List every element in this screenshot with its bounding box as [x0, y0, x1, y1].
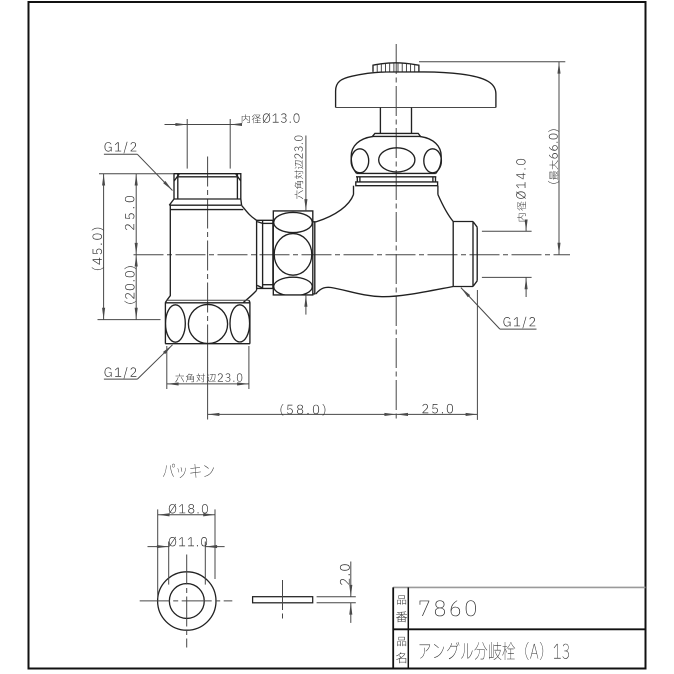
packing side view centerline	[282, 580, 284, 619]
dimension label hex across-flats 23.0 vertical	[294, 136, 303, 200]
dimension inner diameter 14.0 arrows	[525, 222, 527, 232]
dimension (20.0) line	[135, 255, 137, 320]
title block left border	[392, 587, 394, 668]
dimension (58.0) line	[208, 413, 397, 415]
title block label part number (hinban)	[397, 595, 406, 604]
dimension max height extension line at handle top	[419, 61, 565, 63]
dimension thickness 2.0 arrows	[350, 562, 352, 597]
dimension label (58.0)	[281, 404, 326, 416]
dimension diameter 18.0 line	[158, 514, 215, 516]
packing centerline horizontal	[140, 600, 233, 602]
centerline left fitting vertical axis	[207, 157, 209, 346]
dimension label hex across-flats 23.0 horizontal	[175, 373, 242, 382]
dimension extension line top at thread	[99, 173, 174, 175]
branch right flange to valve body	[313, 222, 315, 294]
label packing title	[163, 464, 214, 478]
left fitting body right edge upper S-curve to branch	[242, 205, 257, 220]
valve handle knurled cap	[373, 63, 419, 72]
dimension (45.0) line	[103, 174, 105, 320]
left fitting flare below thread	[169, 199, 174, 205]
title block row divider	[393, 628, 645, 630]
valve body neck	[353, 186, 355, 195]
dimension hex across-flats 23.0 leader upper	[305, 136, 307, 211]
dimension hex across-flats 23.0 leader lower	[305, 295, 307, 315]
label G1/2 bottom-left with leader	[105, 367, 137, 379]
dimension hex nut across-flats line	[167, 383, 249, 385]
left fitting body right edge lower S-curve from branch	[243, 290, 256, 302]
label G1/2 right with leader	[503, 317, 535, 329]
left fitting thread bottom edge	[174, 198, 241, 200]
dimension label diameter 18.0	[169, 504, 208, 514]
dimension label inner diameter 14.0	[516, 159, 526, 222]
packing front view inner circle	[169, 584, 204, 619]
left fitting top thread G1/2 outer profile	[174, 174, 241, 199]
dimension label (45.0)	[92, 228, 104, 270]
dimension label diameter 11.0	[169, 537, 207, 547]
dimension 25.0 bottom line	[396, 413, 477, 415]
title block part number value 7860	[420, 600, 476, 616]
dimension label 25.0 bottom	[422, 404, 453, 414]
dimension diameter 11.0 arrows	[148, 546, 169, 548]
valve handle mushroom profile	[336, 72, 496, 108]
dimension label 25.0	[125, 196, 135, 230]
label G1/2 top-left with leader	[105, 142, 137, 154]
dimension label thickness 2.0	[340, 564, 350, 585]
dimension inner diameter 13.0 extension lines	[186, 119, 188, 169]
left fitting thread minor-diameter lines	[177, 174, 179, 199]
packing centerline vertical	[186, 555, 188, 648]
dimension hex nut across-flats extension lines	[166, 346, 168, 389]
title block part name value	[419, 642, 568, 660]
dimension diameter 18.0 extension lines	[157, 509, 159, 598]
left fitting body left edge	[167, 205, 170, 300]
dimension 25.0 line	[135, 174, 137, 255]
title block label part name (hinmei)	[397, 637, 406, 646]
packing front view outer circle	[158, 572, 216, 630]
left fitting hex nut top washer band	[167, 299, 249, 301]
valve body bottom curve	[316, 287, 453, 297]
packing side view	[253, 597, 313, 603]
centerline valve vertical axis	[395, 44, 397, 420]
left fitting thread crest line	[178, 176, 238, 178]
valve bonnet lobes	[351, 149, 369, 173]
branch hex nut	[273, 211, 313, 296]
valve body right shoulder curve	[438, 195, 453, 222]
extension of left fitting axis to 58.0 dimension	[207, 345, 209, 420]
dimension label inner diameter 13.0	[242, 113, 300, 123]
valve bonnet collar	[372, 133, 420, 136]
dimension diameter 11.0 extension lines	[168, 542, 170, 585]
dimension inner diameter 14.0 extension lines	[482, 230, 532, 232]
dimension (max 66.0) line	[558, 62, 560, 255]
branch union washer	[257, 220, 273, 288]
valve bonnet skirt	[357, 172, 436, 174]
valve right port G1/2	[452, 222, 454, 287]
valve handle bottom edge	[336, 107, 496, 109]
left fitting thread chamfer corners	[174, 174, 179, 181]
valve body left shoulder curve	[316, 195, 354, 222]
dimension inner diameter 13.0 line and arrows	[165, 124, 239, 126]
left fitting hex nut body	[165, 303, 250, 344]
valve stem	[379, 108, 381, 134]
extension line right port to 25.0 dimension	[476, 290, 478, 420]
dimension thickness 2.0 extension lines	[317, 596, 356, 598]
dimension label (20.0)	[124, 266, 136, 303]
valve bonnet dome	[351, 136, 373, 173]
dimension label (max 66.0)	[548, 129, 559, 183]
dimension extension line bottom at fitting outlet	[98, 319, 161, 321]
centerline horizontal main axis	[134, 254, 571, 256]
title block label column divider	[407, 587, 409, 668]
title block top line	[393, 586, 645, 588]
